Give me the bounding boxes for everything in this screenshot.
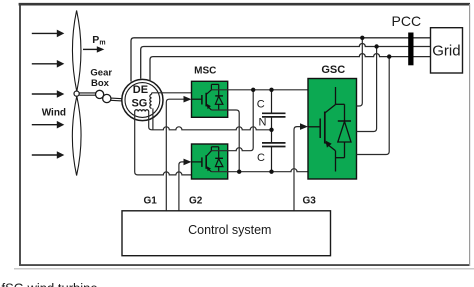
svg-text:Gear: Gear [90,67,112,78]
wind arrow 1 [32,30,65,38]
node: top bus junction from lower MSC [251,88,255,92]
diode in upper MSC [215,84,223,110]
wire: lower MSC positive to top bus [211,90,253,151]
svg-text:PCC: PCC [392,13,422,29]
low-speed shaft [79,93,95,95]
turbine blade lower [72,96,81,175]
svg-text:GSC: GSC [321,64,345,76]
svg-text:Grid: Grid [432,43,460,60]
Pm arrow [83,46,104,52]
svg-text:N: N [259,116,267,128]
stator phase line C [150,54,431,81]
IGBT in lower MSC [192,147,219,172]
field coil bottom (horizontal) [135,110,149,112]
field coil right (vertical) [150,94,152,108]
wire: upper MSC negative to bottom bus [211,110,239,172]
wire: bottom coil left lead to lower MSC [135,112,196,175]
capacitor C lower [262,130,286,172]
Control system box [122,211,331,256]
node: bottom bus capacitor junction [269,170,273,174]
node: bottom bus junction from upper MSC [237,170,241,174]
page rule line [14,268,474,270]
svg-text:Box: Box [91,78,110,89]
svg-text:G1: G1 [144,195,158,206]
wind arrow [32,90,65,98]
svg-text:G3: G3 [303,195,317,206]
node N midpoint [269,128,273,132]
svg-text:C: C [257,98,265,110]
svg-text:G2: G2 [189,195,203,206]
wire: GSC phase B riser [357,47,377,132]
IGBT in upper MSC [192,84,219,110]
generator DESG inner circle [125,83,160,118]
gate line G3 [294,127,301,211]
stator phase line B [141,44,431,79]
wind arrow [32,60,65,68]
wire: GSC phase A riser [357,38,363,106]
converter GSC block [308,79,357,180]
capacitor C upper [262,90,286,130]
wire: DC bottom bus [211,169,308,172]
svg-text:C: C [257,152,265,164]
PCC bus bar [408,33,413,66]
gate line G1 [166,99,184,211]
svg-text:SG: SG [131,98,147,110]
gearbox circle 1 [96,90,104,98]
diode in lower MSC [215,147,223,172]
turbine blade upper [72,11,81,92]
gearbox circle 2 [103,94,111,102]
high-speed shaft [111,98,122,101]
svg-text:Wind: Wind [42,108,66,119]
svg-text:DE: DE [133,84,148,96]
svg-text:MSC: MSC [194,66,216,77]
wire: right coil bottom lead [152,108,154,129]
turbine hub [74,91,79,96]
Grid box [431,28,463,73]
wire: DC top bus [211,89,308,91]
stator phase line A [131,38,431,82]
wire: neutral line to N node [149,112,272,130]
wire: right coil top lead to upper MSC [152,92,207,94]
node: top bus capacitor junction [269,88,273,92]
node: phase B tap [374,44,378,48]
node: phase A tap [360,36,364,40]
diode in GSC [338,104,351,157]
converter MSC upper block [192,81,228,117]
svg-text:fSG wind turbine: fSG wind turbine [2,280,98,287]
wind arrow [32,121,65,129]
node: phase C tap [387,54,391,58]
wind arrow [32,151,65,159]
figure frame [19,3,470,6]
converter MSC lower block [192,144,228,179]
svg-text:Control system: Control system [188,223,271,237]
gate line G2 [179,162,184,211]
wire: GSC phase C riser [357,57,390,155]
IGBT in GSC [308,87,345,172]
generator DESG outer circle [122,79,163,120]
